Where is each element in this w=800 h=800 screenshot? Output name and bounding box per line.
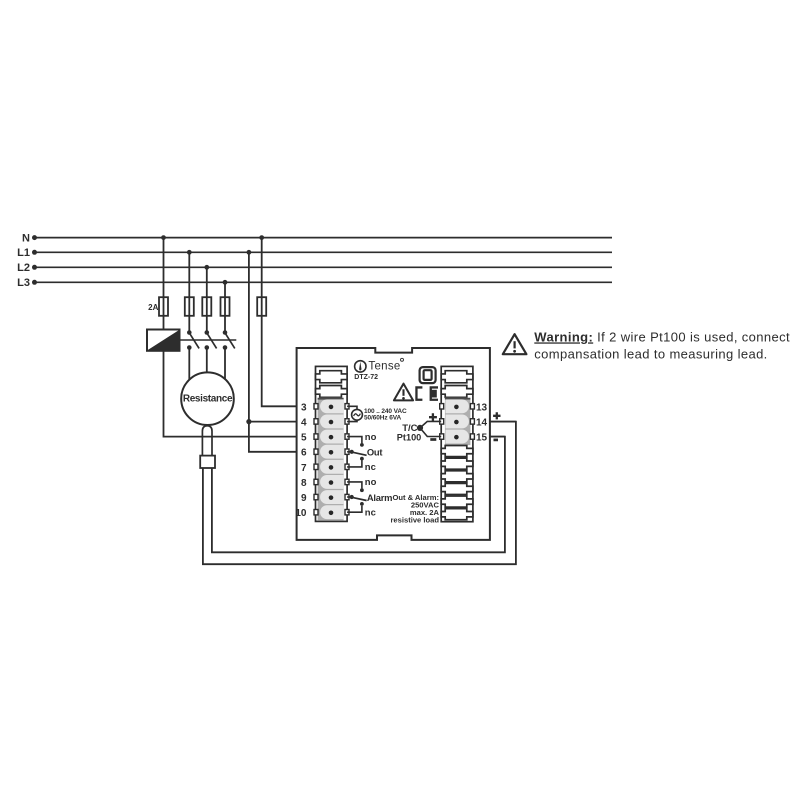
svg-text:no: no <box>365 477 377 488</box>
svg-text:8: 8 <box>301 478 307 489</box>
svg-text:2A: 2A <box>148 303 158 312</box>
svg-text:resistive load: resistive load <box>390 515 439 524</box>
svg-text:N: N <box>22 233 30 245</box>
svg-text:Pt100: Pt100 <box>397 432 422 442</box>
svg-text:Tense: Tense <box>368 360 400 372</box>
svg-text:5: 5 <box>301 433 307 444</box>
svg-text:Warning: If 2 wire Pt100 is us: Warning: If 2 wire Pt100 is used, connec… <box>534 329 790 344</box>
svg-text:no: no <box>365 432 377 443</box>
svg-text:Resistance: Resistance <box>183 393 233 404</box>
svg-text:6: 6 <box>301 448 307 459</box>
svg-text:14: 14 <box>476 417 488 428</box>
svg-text:15: 15 <box>476 433 488 444</box>
svg-text:L2: L2 <box>17 262 30 274</box>
svg-text:9: 9 <box>301 493 307 504</box>
svg-text:13: 13 <box>476 402 488 413</box>
svg-text:7: 7 <box>301 463 307 474</box>
svg-text:nc: nc <box>365 462 376 473</box>
svg-text:Alarm: Alarm <box>367 492 392 503</box>
svg-text:L1: L1 <box>17 247 30 259</box>
svg-text:3: 3 <box>301 402 307 413</box>
svg-text:L3: L3 <box>17 277 30 289</box>
svg-text:Out: Out <box>367 447 383 458</box>
svg-text:4: 4 <box>301 417 307 428</box>
svg-text:nc: nc <box>365 507 376 518</box>
svg-text:50/60Hz 6VA: 50/60Hz 6VA <box>364 415 401 422</box>
svg-text:compansation lead to measuring: compansation lead to measuring lead. <box>534 347 767 362</box>
svg-text:10: 10 <box>295 508 307 519</box>
svg-text:DTZ-72: DTZ-72 <box>354 374 378 381</box>
